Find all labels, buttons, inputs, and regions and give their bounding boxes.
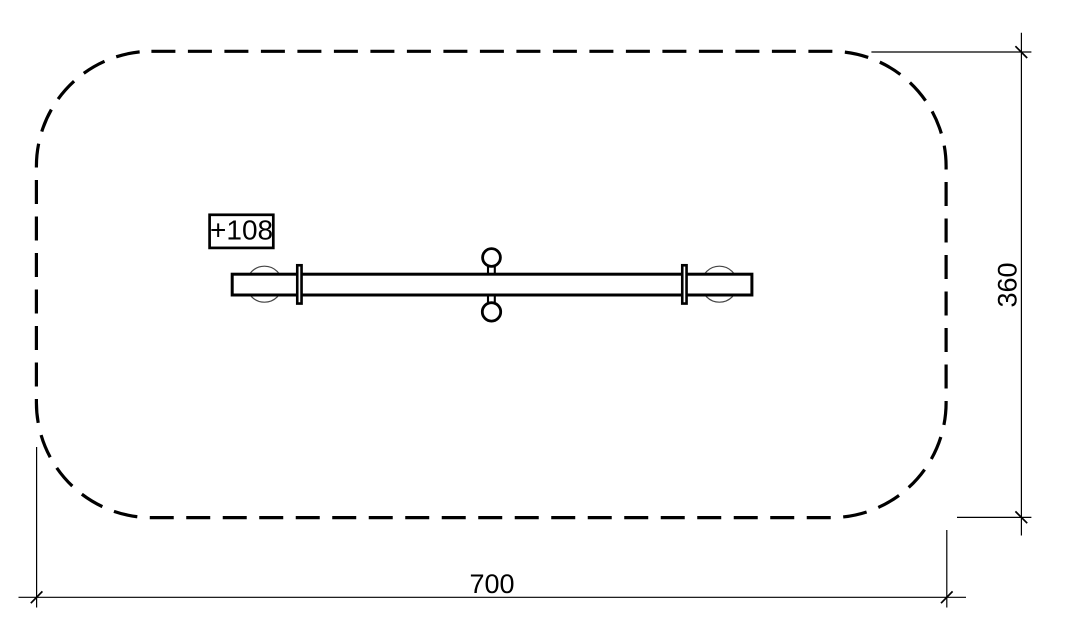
right post circle: [701, 266, 737, 302]
extension line left (700 dim): [36, 447, 38, 608]
tick left (700 dim): [31, 591, 43, 603]
dimension line 700: [19, 596, 967, 598]
svg-text:360: 360: [993, 262, 1023, 307]
svg-text:700: 700: [469, 569, 514, 599]
extension line bottom (360 dim): [957, 516, 1031, 518]
right flange: [682, 265, 686, 303]
tick bottom (360 dim): [1015, 511, 1027, 523]
tick right (700 dim): [941, 591, 953, 603]
extension line top (360 dim): [871, 51, 1031, 53]
left flange: [297, 265, 301, 303]
dimension line 360: [1020, 33, 1022, 536]
bottom handle knob: [482, 303, 500, 321]
extension line right (700 dim): [946, 530, 948, 608]
bottom handle stem: [488, 296, 495, 303]
safety zone dashed outline: [36, 51, 946, 517]
svg-text:+108: +108: [210, 215, 273, 246]
left post circle: [247, 266, 283, 302]
top handle stem: [488, 266, 495, 275]
tick top (360 dim): [1015, 46, 1027, 58]
top handle knob: [483, 249, 501, 267]
dimension text 360: [993, 262, 1023, 307]
balance beam body: [232, 274, 752, 295]
elevation label box +108: [210, 215, 274, 248]
